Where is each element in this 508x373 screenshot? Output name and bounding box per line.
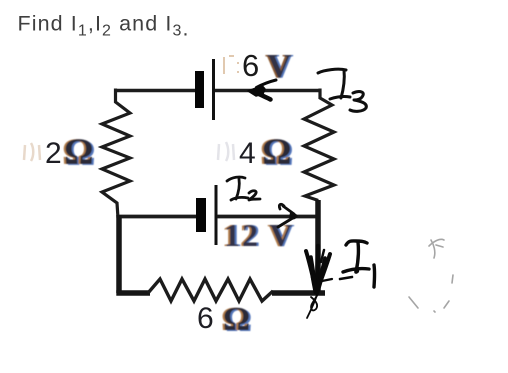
- svg-text:2: 2: [45, 137, 62, 170]
- wire top-right segment: [215, 89, 321, 93]
- wire bottom-right segment: [272, 290, 325, 296]
- resistor R2 4ohm right zigzag: [304, 89, 334, 219]
- wire middle-left segment: [117, 215, 196, 219]
- battery B2 12V thin plate: [215, 185, 218, 245]
- label B1 value 6 V: [242, 48, 292, 85]
- svg-text:6: 6: [197, 302, 214, 335]
- wire left vertical: [116, 215, 122, 293]
- label R1 value 2 ohm: [45, 132, 94, 173]
- wire right vertical: [315, 200, 321, 293]
- resistor R1 2ohm left zigzag: [102, 89, 130, 219]
- svg-text:Ω: Ω: [223, 301, 250, 338]
- handwritten label I2: [227, 177, 260, 200]
- stray faint pencil scribbles right side: [409, 239, 453, 312]
- handwritten label I3: [318, 69, 366, 111]
- wire middle-right segment: [217, 215, 320, 219]
- faint ghost marks near 4ohm label: [218, 142, 234, 161]
- current arrow I1 down scribble: [306, 246, 332, 318]
- resistor R3 6ohm bottom zigzag: [148, 279, 273, 301]
- handwritten label I1: [340, 241, 375, 287]
- svg-text:Ω: Ω: [64, 132, 94, 173]
- faint ghost marks near 6V label: [224, 56, 238, 74]
- label R2 value 4 ohm: [239, 132, 292, 173]
- svg-text:6: 6: [242, 48, 259, 83]
- battery B1 6V thick plate: [195, 71, 204, 108]
- label R3 value 6 ohm: [197, 301, 250, 338]
- svg-text:Find I1,I2 and I3.: Find I1,I2 and I3.: [18, 12, 190, 41]
- faint ghost marks near 2ohm label: [24, 143, 40, 161]
- svg-text:4: 4: [239, 137, 256, 170]
- current arrow I2 right-pointing: [278, 204, 297, 227]
- battery B2 12V thick plate: [196, 198, 206, 232]
- svg-text:Ω: Ω: [262, 132, 292, 173]
- wire bottom-left segment: [116, 290, 150, 296]
- current arrow I3 left-pointing on top wire: [248, 80, 276, 100]
- wire top-left segment: [114, 89, 195, 93]
- battery B1 6V thin plate: [212, 59, 215, 120]
- svg-text:V: V: [267, 48, 292, 85]
